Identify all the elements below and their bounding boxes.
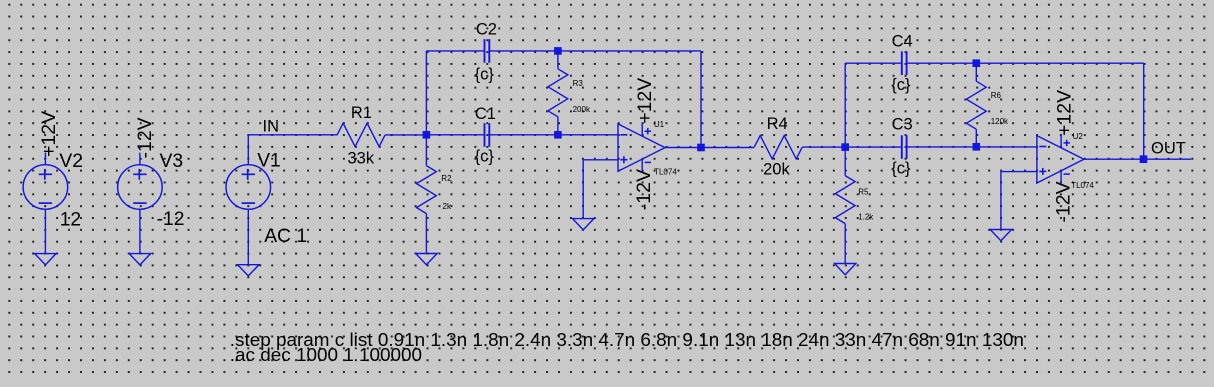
capacitor C1 [485,123,490,147]
op-amp U1 [618,124,665,171]
junction U1 output/feedback [697,144,705,152]
wire R4 to node B [802,146,845,148]
wire U2 output to OUT [1084,158,1191,160]
capacitor C3 [902,135,907,159]
svg-text:C2: C2 [476,21,497,39]
svg-text:{c}: {c} [475,65,495,83]
wire feedback down to U1 output [700,51,702,148]
svg-text:{c}: {c} [475,148,495,166]
svg-text:OUT: OUT [1151,140,1186,158]
junction C2/R3 top [554,47,562,55]
voltage source V3 [118,153,163,254]
wire node B to C3 [845,146,902,148]
ground (R5) [835,264,856,275]
svg-text:120k: 120k [991,117,1009,126]
svg-text:IN: IN [263,117,280,135]
svg-text:2k: 2k [443,202,452,211]
capacitor C2 [485,39,490,63]
svg-text:-12: -12 [157,209,185,230]
svg-text:AC 1: AC 1 [264,226,307,247]
svg-text:R2: R2 [441,174,452,183]
resistor R6 [966,63,986,147]
svg-text:V2: V2 [59,151,83,172]
svg-text:{c}: {c} [891,160,911,178]
svg-text:V1: V1 [257,151,281,172]
svg-text:C1: C1 [475,105,496,123]
wire C2 left lead [426,50,484,52]
junction R6 bottom [973,143,981,151]
wire C4 left lead [845,62,902,64]
svg-text:-12V: -12V [134,117,156,158]
svg-text:{c}: {c} [891,76,911,94]
svg-text:-12V: -12V [633,169,655,210]
svg-text:33k: 33k [348,149,375,167]
svg-text:20k: 20k [763,161,790,179]
wire U1 non-inverting input to ground [583,160,618,219]
wire U1 output [665,147,754,149]
ground (R2) [416,254,437,265]
svg-text:1.2k: 1.2k [858,213,874,222]
svg-text:-12V: -12V [1053,181,1075,222]
wire C4 right lead to feedback corner [907,62,1144,64]
ground (V2) [35,254,56,265]
wire node B vertical up to C4 branch [844,63,846,147]
junction node A [423,131,431,139]
svg-text:R4: R4 [767,115,788,133]
resistor R2 [417,135,437,254]
wire R1 to node A [385,134,426,136]
svg-text:+12V: +12V [38,111,60,157]
svg-text:.ac dec 1000 1 100000: .ac dec 1000 1 100000 [230,345,422,366]
svg-text:12: 12 [60,210,81,231]
ground (V3) [129,254,150,265]
ground (U2) [990,230,1011,241]
resistor R1 [337,123,385,146]
wire IN node to R1 [248,134,337,136]
junction R3 bottom [554,131,562,139]
wire C1 to U1 inverting input [489,134,618,136]
wire C2 right lead to feedback corner [489,50,701,52]
ground (U1) [573,219,594,230]
ground (V1) [238,265,259,276]
resistor R4 [754,136,802,159]
wire C3 to U2 inverting input [907,146,1037,148]
wire feedback down to U2 output [1143,63,1145,159]
svg-text:C3: C3 [892,116,913,134]
wire node A vertical up to C2 branch [425,51,427,135]
voltage source V1 [226,135,271,265]
svg-text:+12V: +12V [1053,90,1075,136]
svg-text:R3: R3 [573,79,584,88]
svg-text:R5: R5 [858,188,869,197]
wire node A to C1 [426,134,484,136]
voltage source V2 [23,153,68,254]
resistor R5 [835,147,855,263]
svg-text:+12V: +12V [634,78,656,124]
capacitor C4 [902,51,907,75]
wire U2 non-inverting input to ground [1001,172,1037,230]
junction OUT node [1140,155,1148,163]
op-amp U2 [1037,136,1084,183]
svg-text:C4: C4 [892,33,913,51]
junction node B [841,143,849,151]
svg-text:R1: R1 [351,104,372,122]
svg-text:200k: 200k [573,105,591,114]
svg-text:TL074: TL074 [1071,181,1094,190]
svg-text:TL074: TL074 [654,167,677,176]
svg-text:V3: V3 [160,151,184,172]
resistor R3 [548,51,568,135]
svg-text:R6: R6 [991,91,1002,100]
junction C4/R6 top [973,59,981,67]
